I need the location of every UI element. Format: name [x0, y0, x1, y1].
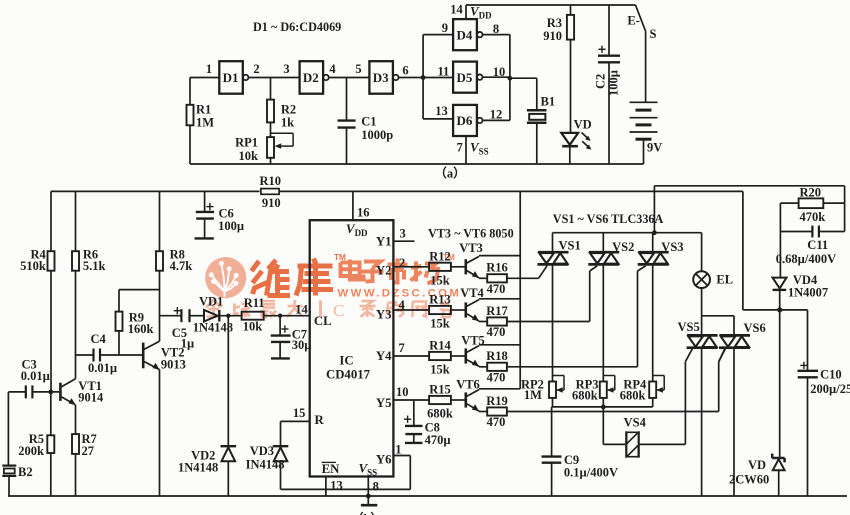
- svg-text:EN: EN: [322, 462, 341, 476]
- svg-text:R14: R14: [429, 339, 451, 353]
- svg-text:200µ/25: 200µ/25: [810, 382, 850, 396]
- svg-text:1N4007: 1N4007: [788, 285, 828, 299]
- svg-text:14: 14: [450, 3, 463, 17]
- svg-text:1: 1: [395, 443, 401, 457]
- svg-text:2CW60: 2CW60: [729, 473, 769, 487]
- svg-text:VDD: VDD: [346, 221, 368, 238]
- svg-text:IC: IC: [339, 354, 353, 368]
- svg-text:0.68µ/400V: 0.68µ/400V: [776, 252, 836, 266]
- svg-text:4: 4: [329, 62, 336, 76]
- svg-text:1µ: 1µ: [181, 336, 194, 350]
- svg-text:VT5: VT5: [461, 334, 485, 348]
- svg-text:VD3: VD3: [250, 444, 274, 458]
- svg-text:7: 7: [399, 341, 405, 355]
- svg-text:R10: R10: [260, 174, 282, 188]
- svg-text:R20: R20: [800, 185, 822, 199]
- svg-text:R12: R12: [429, 249, 451, 263]
- svg-text:9V: 9V: [647, 141, 662, 155]
- svg-text:VT4: VT4: [460, 286, 484, 300]
- svg-text:7: 7: [457, 141, 463, 155]
- svg-text:10: 10: [396, 385, 409, 399]
- svg-text:5.1k: 5.1k: [83, 259, 106, 273]
- svg-text:IN4148: IN4148: [246, 457, 285, 471]
- svg-text:8: 8: [373, 480, 379, 494]
- svg-text:470: 470: [487, 325, 506, 339]
- svg-text:R2: R2: [281, 103, 296, 117]
- svg-text:R1: R1: [196, 103, 211, 117]
- svg-text:100µ: 100µ: [218, 219, 244, 233]
- svg-text:15k: 15k: [430, 363, 450, 377]
- svg-text:VS6: VS6: [744, 321, 766, 335]
- svg-text:（a）: （a）: [434, 166, 465, 181]
- svg-text:10: 10: [493, 65, 506, 79]
- svg-text:VD: VD: [748, 458, 766, 472]
- svg-text:EL: EL: [716, 272, 733, 286]
- svg-text:VT3: VT3: [459, 241, 483, 255]
- svg-text:VS1: VS1: [559, 239, 581, 253]
- svg-text:13: 13: [435, 104, 448, 118]
- svg-text:VS1 ~ VS6 TLC336A: VS1 ~ VS6 TLC336A: [553, 212, 664, 226]
- svg-text:15: 15: [293, 406, 306, 420]
- svg-text:VD: VD: [574, 118, 592, 132]
- svg-text:R18: R18: [486, 349, 508, 363]
- svg-text:1k: 1k: [281, 116, 294, 130]
- svg-text:RP1: RP1: [235, 136, 258, 150]
- svg-text:C2: C2: [594, 74, 608, 89]
- svg-text:470: 470: [487, 370, 506, 384]
- svg-text:（b）: （b）: [351, 511, 383, 515]
- svg-text:1M: 1M: [524, 388, 542, 402]
- svg-text:1N4148: 1N4148: [193, 321, 233, 335]
- svg-text:9: 9: [442, 21, 448, 35]
- svg-text:C10: C10: [820, 367, 842, 381]
- svg-text:R17: R17: [486, 304, 508, 318]
- svg-text:3: 3: [400, 227, 406, 241]
- svg-text:VDD: VDD: [470, 4, 492, 21]
- svg-text:C4: C4: [91, 332, 107, 346]
- svg-text:3: 3: [283, 62, 289, 76]
- svg-text:D1: D1: [223, 70, 239, 85]
- svg-text:160k: 160k: [128, 322, 154, 336]
- svg-text:100µ: 100µ: [607, 70, 621, 96]
- svg-text:16: 16: [357, 206, 370, 220]
- svg-text:VS5: VS5: [678, 320, 700, 334]
- svg-text:D1 ~ D6:CD4069: D1 ~ D6:CD4069: [253, 20, 341, 34]
- svg-text:Y2: Y2: [376, 264, 392, 278]
- svg-text:470µ: 470µ: [425, 433, 451, 447]
- svg-text:1N4148: 1N4148: [178, 460, 218, 474]
- svg-text:470k: 470k: [800, 210, 826, 224]
- svg-text:D3: D3: [373, 70, 389, 85]
- svg-text:910: 910: [262, 196, 281, 210]
- svg-text:Y5: Y5: [376, 396, 392, 410]
- svg-text:B1: B1: [541, 95, 556, 109]
- svg-text:Y6: Y6: [376, 453, 392, 467]
- svg-text:C11: C11: [807, 238, 828, 252]
- svg-text:680k: 680k: [572, 388, 598, 402]
- svg-text:5: 5: [355, 62, 361, 76]
- svg-text:VS4: VS4: [624, 416, 647, 430]
- svg-text:10k: 10k: [239, 149, 259, 163]
- svg-text:0.1µ/400V: 0.1µ/400V: [564, 465, 618, 479]
- svg-text:S: S: [650, 27, 657, 41]
- svg-text:680k: 680k: [427, 407, 453, 421]
- svg-text:R13: R13: [429, 293, 451, 307]
- svg-text:R16: R16: [486, 261, 508, 275]
- svg-text:14: 14: [295, 303, 308, 317]
- svg-text:CD4017: CD4017: [326, 367, 371, 381]
- svg-text:0.01µ: 0.01µ: [88, 361, 117, 375]
- svg-text:CL: CL: [314, 314, 332, 328]
- svg-text:2: 2: [253, 62, 259, 76]
- svg-text:R15: R15: [429, 383, 451, 397]
- svg-text:30µ: 30µ: [292, 338, 312, 352]
- svg-text:680k: 680k: [620, 388, 646, 402]
- svg-text:VS2: VS2: [612, 240, 634, 254]
- svg-text:B2: B2: [18, 465, 33, 479]
- svg-text:1: 1: [206, 62, 212, 76]
- svg-text:1000p: 1000p: [361, 128, 393, 142]
- svg-text:Y3: Y3: [376, 308, 392, 322]
- svg-text:12: 12: [490, 108, 503, 122]
- svg-text:470: 470: [487, 282, 506, 296]
- svg-text:470: 470: [487, 415, 506, 429]
- svg-text:510k: 510k: [20, 259, 46, 273]
- svg-text:8: 8: [493, 22, 499, 36]
- svg-text:D6: D6: [457, 113, 473, 128]
- svg-text:VSS: VSS: [470, 140, 489, 157]
- svg-text:VT6: VT6: [456, 378, 480, 392]
- svg-text:Y4: Y4: [376, 349, 392, 363]
- svg-text:4.7k: 4.7k: [170, 259, 193, 273]
- svg-text:D2: D2: [303, 70, 319, 85]
- svg-text:D5: D5: [457, 70, 473, 85]
- svg-text:R11: R11: [244, 296, 265, 310]
- svg-text:15k: 15k: [430, 273, 450, 287]
- svg-text:1M: 1M: [196, 116, 214, 130]
- svg-text:200k: 200k: [18, 444, 44, 458]
- svg-text:C1: C1: [361, 114, 376, 128]
- svg-text:Y1: Y1: [376, 235, 392, 249]
- svg-text:VSS: VSS: [359, 461, 378, 478]
- svg-text:6: 6: [402, 64, 408, 78]
- svg-text:C: C: [333, 301, 344, 320]
- svg-text:0.01µ: 0.01µ: [21, 369, 50, 383]
- svg-text:910: 910: [543, 29, 562, 43]
- svg-text:27: 27: [82, 444, 95, 458]
- svg-text:VD1: VD1: [199, 294, 223, 308]
- svg-text:2: 2: [399, 256, 405, 270]
- svg-text:VT3 ~ VT6 8050: VT3 ~ VT6 8050: [428, 227, 514, 241]
- svg-text:D4: D4: [457, 27, 473, 42]
- svg-text:R: R: [315, 413, 325, 427]
- svg-text:10k: 10k: [243, 320, 263, 334]
- svg-text:9013: 9013: [161, 357, 186, 371]
- svg-text:13: 13: [330, 479, 343, 493]
- svg-text:R3: R3: [547, 16, 562, 30]
- svg-text:E-: E-: [627, 14, 640, 28]
- svg-text:9014: 9014: [78, 390, 104, 404]
- svg-text:R19: R19: [486, 394, 508, 408]
- svg-text:15k: 15k: [430, 317, 450, 331]
- svg-text:11: 11: [437, 65, 449, 79]
- svg-text:VS3: VS3: [661, 240, 683, 254]
